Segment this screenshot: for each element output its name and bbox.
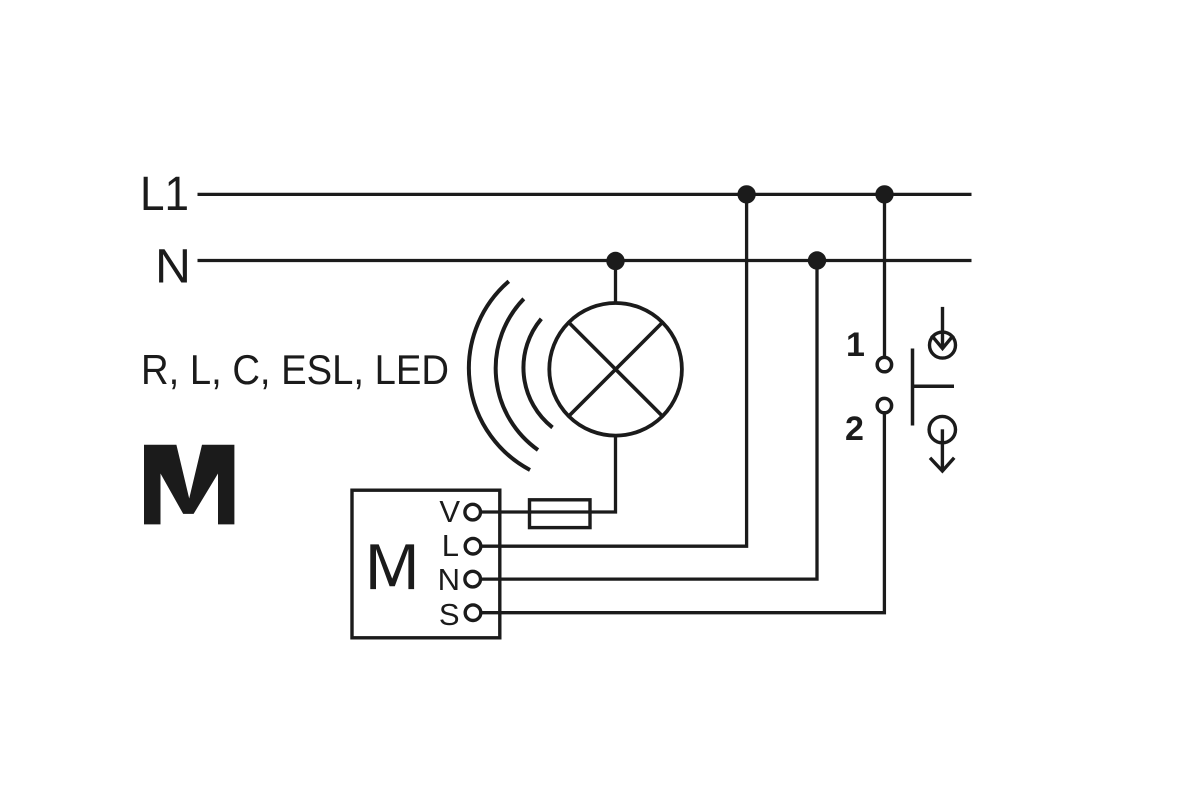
press symbol circle	[930, 332, 956, 358]
svg-text:1: 1	[846, 326, 865, 364]
wire lamp top stem	[614, 261, 617, 305]
junction dot N-N	[808, 251, 826, 269]
svg-text:N: N	[438, 562, 460, 597]
svg-text:V: V	[439, 494, 460, 529]
junction dot switch-L1	[875, 185, 893, 203]
box label M	[370, 544, 414, 589]
logo letter M	[144, 445, 234, 525]
wire L terminal to L1	[481, 194, 747, 546]
terminal N circle	[465, 571, 481, 587]
wire N terminal to N bus	[481, 261, 817, 580]
terminal L circle	[465, 538, 481, 554]
switch contact 2 circle	[877, 398, 891, 412]
lamp	[549, 303, 682, 436]
svg-text:S: S	[439, 597, 460, 632]
wave arc outer	[469, 281, 530, 470]
svg-text:L1: L1	[140, 168, 189, 221]
push button stem bar	[913, 385, 955, 389]
wire L1 bus	[198, 193, 972, 196]
wave arc inner	[523, 319, 552, 428]
sensor box M	[352, 490, 500, 638]
svg-text:N: N	[155, 241, 191, 294]
wire S terminal to switch contact 2	[481, 412, 884, 612]
junction dot lamp-N	[606, 252, 624, 270]
terminal S circle	[465, 605, 481, 621]
fuse	[530, 500, 591, 528]
wire N bus	[198, 259, 972, 262]
junction dot L-L1	[737, 185, 755, 203]
svg-text:R, L, C, ESL, LED: R, L, C, ESL, LED	[141, 346, 449, 393]
push button actuator bar	[911, 349, 915, 426]
release symbol arrow	[941, 429, 944, 470]
terminal V circle	[465, 504, 481, 520]
switch contact 1 circle	[877, 357, 891, 371]
wave arc middle	[496, 299, 538, 450]
release symbol circle	[929, 416, 955, 442]
wire L1 to switch contact 1	[883, 194, 886, 357]
press symbol arrow	[941, 307, 944, 349]
wire lamp bottom to fuse	[481, 435, 616, 513]
svg-text:2: 2	[845, 410, 864, 448]
svg-text:L: L	[442, 528, 459, 563]
